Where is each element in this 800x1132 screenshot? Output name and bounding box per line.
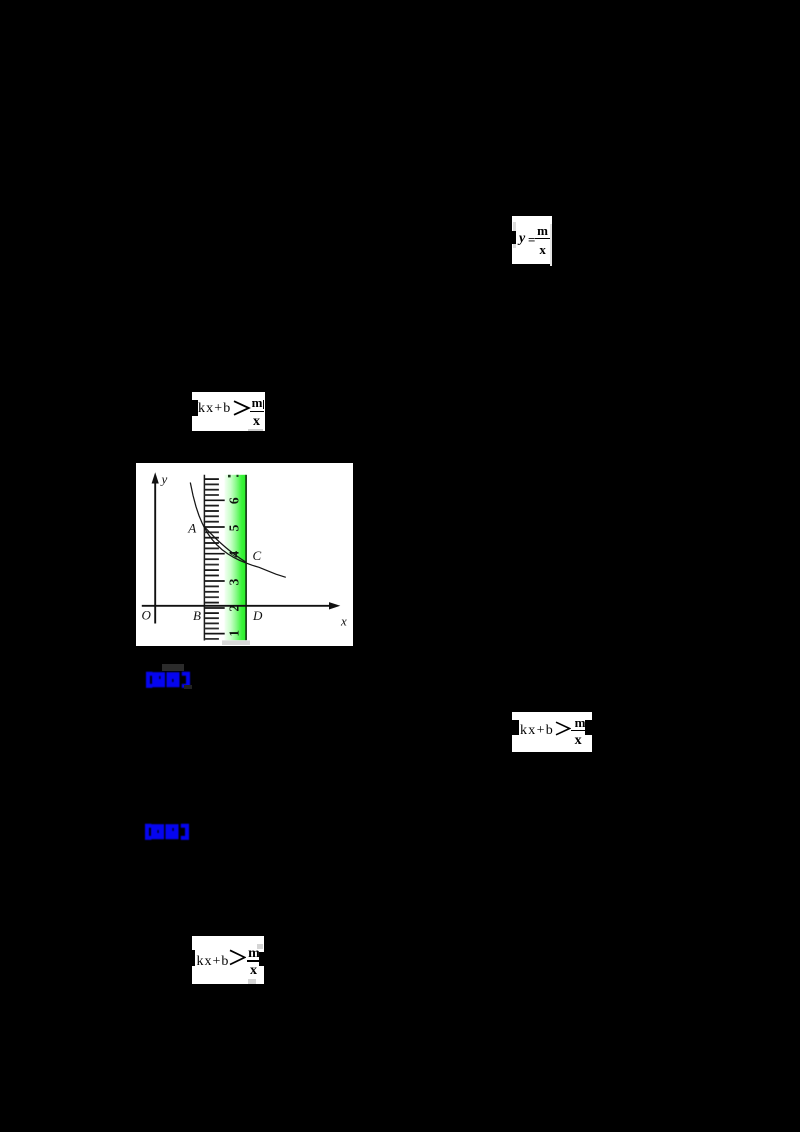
gray bottom strip <box>248 429 263 431</box>
svg-text:5: 5 <box>226 524 241 531</box>
hyperbola <box>190 483 285 578</box>
svg-text:3: 3 <box>226 578 241 585</box>
greater-than sign <box>555 721 571 736</box>
y-axis <box>154 479 156 624</box>
formula image kx+b>m/x (third) <box>192 936 264 984</box>
svg-text:B: B <box>193 608 201 623</box>
ruler numbers <box>226 497 241 637</box>
kx+b <box>197 955 230 969</box>
svg-text:D: D <box>252 608 263 623</box>
formula image kx+b>m/x (first) <box>192 392 265 431</box>
dark gray mark above label 1 <box>162 664 184 671</box>
numerator m <box>574 716 587 729</box>
denominator x <box>250 415 263 429</box>
fraction bar <box>535 238 549 239</box>
fraction bar <box>571 730 586 732</box>
labels <box>141 472 347 629</box>
graph image <box>136 463 353 646</box>
equals <box>528 233 535 246</box>
fraction bar <box>247 960 263 962</box>
clipped glyph right <box>259 952 264 966</box>
fraction bar <box>250 411 264 413</box>
chord AC <box>204 527 246 563</box>
kx+b <box>520 724 554 738</box>
svg-text:y: y <box>159 472 167 487</box>
x-axis <box>141 605 335 607</box>
gray edge strip left <box>513 222 516 248</box>
clipped glyph left <box>512 231 516 244</box>
formula image y=m/x <box>512 216 552 264</box>
ruler left line <box>203 475 205 641</box>
dark gray mark below label 1 <box>184 685 192 689</box>
clipped glyph left <box>192 950 195 965</box>
gray edge strip right <box>550 224 553 266</box>
denominator x <box>572 734 585 748</box>
clipped glyph left <box>192 400 198 416</box>
blue label 2 <box>143 823 191 840</box>
svg-text:x: x <box>340 614 347 629</box>
svg-text:O: O <box>141 608 151 623</box>
greater-than sign <box>229 949 246 966</box>
greater-than sign <box>233 400 251 416</box>
clipped glyph left <box>512 720 519 735</box>
numerator m <box>536 224 550 237</box>
clipped glyph right <box>263 400 264 409</box>
numerator m <box>251 396 264 409</box>
denominator x <box>536 243 550 256</box>
svg-text:1: 1 <box>226 630 241 637</box>
x-axis arrowhead <box>329 602 340 609</box>
y-axis arrowhead <box>151 472 158 483</box>
variable y <box>519 232 525 246</box>
formula image kx+b>m/x (second) <box>512 712 592 752</box>
ruler green strip <box>224 475 245 640</box>
gray mark top right <box>257 944 263 949</box>
ruler bottom shadow <box>222 640 250 645</box>
kx+b <box>198 402 231 416</box>
numerator m <box>247 947 261 961</box>
clipped glyph right <box>585 720 593 735</box>
clipped digit 7 marks at ruler top <box>228 475 231 478</box>
ruler right dark border <box>245 475 247 640</box>
denominator x <box>247 964 260 978</box>
ruler ticks <box>204 478 219 480</box>
blue label 1 <box>144 671 192 688</box>
svg-text:6: 6 <box>226 497 241 504</box>
svg-text:A: A <box>187 521 196 536</box>
svg-text:C: C <box>252 548 261 563</box>
gray mark bottom <box>248 979 256 984</box>
